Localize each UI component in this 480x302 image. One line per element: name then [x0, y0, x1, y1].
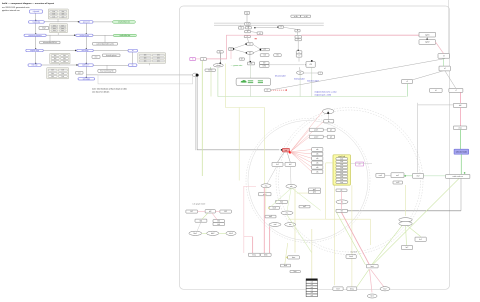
red junction dot — [289, 151, 292, 154]
box above bus 2 — [301, 15, 311, 18]
wire B3-C1 — [93, 50, 128, 52]
arrow T18 top — [250, 61, 251, 62]
wire yellow to pink gray — [351, 162, 373, 164]
node flat 1 — [336, 189, 347, 192]
svg-text:r3: r3 — [443, 56, 445, 58]
hub junction dot — [196, 74, 199, 77]
node under cloud — [205, 69, 215, 72]
svg-text:right1: right1 — [425, 33, 430, 36]
wire green r3-r4 — [443, 58, 445, 66]
node bl r2b2 — [213, 223, 224, 226]
svg-text:t15: t15 — [276, 54, 278, 57]
wire green diag 6 — [271, 188, 291, 206]
node bm b — [260, 253, 271, 256]
node right r7 — [449, 88, 463, 92]
svg-text:stk: stk — [316, 157, 318, 160]
wire group1 drop — [57, 19, 59, 22]
icon green bars 1 — [248, 80, 253, 83]
svg-text:tiny label: tiny label — [350, 251, 357, 254]
node C2 — [128, 64, 137, 67]
svg-text:cloud: cloud — [216, 65, 220, 67]
node br 1 — [415, 237, 426, 241]
ring inner dashed — [246, 119, 370, 243]
wire khaki horiz 2 — [288, 218, 326, 220]
svg-text:bl5: bl5 — [217, 221, 219, 223]
svg-text:stk: stk — [316, 148, 318, 151]
svg-text:pk: pk — [359, 164, 361, 166]
node bl e3 — [226, 231, 236, 235]
wire green r5 drop — [406, 84, 408, 97]
node pair mid a — [309, 188, 321, 191]
node mid box 3 — [269, 206, 280, 209]
arrow E1 left — [245, 43, 247, 45]
svg-text:ble3: ble3 — [229, 233, 232, 235]
red marker dash — [255, 37, 257, 40]
svg-text:mx2: mx2 — [280, 201, 283, 203]
svg-text:bma: bma — [252, 254, 256, 256]
node bl e2 — [207, 231, 219, 235]
node T19a — [259, 62, 269, 65]
wire L right horiz — [418, 104, 454, 106]
node yellow item 3 — [336, 166, 348, 169]
svg-text:svcbox: svcbox — [208, 70, 213, 72]
svg-text:rm0: rm0 — [379, 175, 382, 177]
svg-text:r5: r5 — [406, 81, 408, 83]
node A2 — [29, 20, 45, 23]
svg-text:e3: e3 — [299, 72, 301, 74]
junction arrow 11 — [76, 64, 77, 65]
wire T9 to E1 — [247, 38, 249, 43]
node on bus — [245, 22, 250, 25]
node right r2 — [419, 40, 436, 45]
svg-text:br1: br1 — [419, 239, 422, 241]
node bl r2a — [195, 219, 207, 222]
svg-text:bmg: bmg — [350, 288, 354, 290]
svg-text:stk: stk — [316, 166, 318, 169]
wire T8 drop — [297, 32, 299, 35]
wire group5 drop — [149, 62, 151, 65]
group G4 items — [47, 68, 69, 79]
wire green diag 9 — [287, 215, 312, 253]
node T17 — [239, 58, 244, 61]
wire group3 drop — [59, 64, 61, 65]
wire pink L1 to right box — [301, 34, 419, 36]
node yellow item 4 — [336, 169, 348, 172]
node fan box top — [324, 120, 334, 123]
wire red fan 6 — [290, 152, 311, 159]
node fan pair 1b — [327, 128, 335, 131]
wire W_a drop — [49, 35, 51, 41]
wire rm2 to wide — [424, 175, 446, 177]
node right m2 — [413, 173, 424, 178]
node stack box 5 — [312, 170, 323, 174]
group G2 items — [50, 24, 68, 33]
node right m3 — [393, 181, 403, 184]
node bm a — [248, 253, 260, 256]
wire cloud to svc green — [210, 67, 212, 69]
svg-text:L2: L2 — [297, 39, 299, 41]
wire pink elbow — [244, 236, 253, 238]
svg-text:rev 2024.01.01 generated auto: rev 2024.01.01 generated auto — [2, 6, 30, 9]
wire pink flat chain — [341, 192, 343, 210]
arrow r1-r2 — [426, 38, 428, 40]
node T3 — [238, 26, 244, 29]
svg-text:aa bb: aa bb — [294, 16, 298, 18]
svg-text:endpoint.host.name = value: endpoint.host.name = value — [315, 91, 337, 94]
junction arrow 10 — [75, 50, 76, 51]
node right r5 — [402, 80, 413, 84]
wire pink under T10 — [230, 50, 232, 59]
wire T19 to T20 — [269, 64, 304, 66]
node right m1 — [391, 173, 404, 178]
box W_b note — [93, 43, 118, 46]
green dot rm1 — [404, 175, 406, 177]
node L2 — [295, 38, 301, 41]
node right r1 — [419, 32, 436, 37]
node bm ellipse 1 — [367, 294, 377, 298]
wire T4 drop — [247, 25, 249, 31]
svg-text:stk: stk — [316, 153, 318, 156]
node highlight target — [454, 149, 469, 154]
node below red 1 — [272, 162, 283, 166]
svg-text:cfgnode: cfgnode — [33, 11, 39, 13]
junction arrow 7 — [86, 77, 87, 78]
node stack box 2 — [312, 157, 323, 161]
node red hot box — [282, 148, 289, 152]
node T11 ellipse — [246, 51, 254, 54]
container green zone edge — [218, 68, 407, 97]
wire khaki path 7 — [311, 229, 313, 279]
node T19b — [259, 65, 269, 68]
wire bl drop — [197, 222, 201, 231]
group G3 items — [50, 53, 70, 64]
wire khaki horiz — [297, 192, 321, 194]
node A1 start — [30, 10, 43, 13]
wire khaki path 6 — [351, 185, 353, 287]
wire T3 drop — [240, 25, 242, 26]
node E1 top — [246, 43, 253, 46]
arrow into red box — [281, 149, 283, 151]
svg-text:pair1: pair1 — [314, 129, 318, 131]
svg-text:t14: t14 — [263, 54, 265, 57]
node bm d — [280, 264, 290, 267]
svg-text:p2: p2 — [330, 136, 332, 138]
svg-text:bl1: bl1 — [190, 211, 192, 213]
node flat 2 — [336, 209, 348, 212]
node bl e1 — [189, 231, 202, 235]
node mid ellipse D — [269, 223, 281, 227]
wire pink diff down — [459, 108, 461, 127]
wire green diag 4 — [337, 212, 366, 265]
junction arrow 5 — [86, 48, 87, 49]
node T16b — [296, 54, 302, 57]
node T6 — [257, 32, 263, 35]
svg-text:v: v — [299, 55, 300, 57]
svg-text:mb: mb — [290, 186, 293, 188]
node mid ellipse C — [281, 211, 293, 215]
box above bus 1 — [291, 15, 301, 18]
svg-text:pipeline internal use: pipeline internal use — [2, 9, 21, 12]
wire green diag 1 — [406, 224, 421, 236]
box W_d — [92, 56, 100, 59]
wire T18 down — [250, 65, 252, 97]
node B5 — [78, 77, 95, 80]
node T8 — [295, 29, 300, 32]
node pair mid b — [309, 191, 321, 194]
db cylinder — [399, 218, 412, 226]
svg-text:tmpf: tmpf — [42, 27, 46, 30]
svg-text:bl6: bl6 — [217, 224, 219, 226]
svg-text:r4: r4 — [444, 68, 446, 70]
wire bl diag green — [202, 213, 208, 219]
box W_h — [98, 70, 116, 73]
node gray entry — [200, 58, 206, 61]
arrow T7 left — [277, 27, 278, 28]
wire diag B — [445, 71, 456, 89]
wire A4-B3 — [43, 50, 76, 52]
node right r6 — [430, 88, 443, 92]
svg-text:build — component diagram — ov: build — component diagram — overview of … — [2, 2, 54, 5]
wire pink main path — [206, 35, 295, 59]
node right wide — [446, 174, 470, 178]
wire T13 to cloud — [219, 53, 221, 63]
icon green cloud — [241, 80, 247, 83]
svg-text:md: md — [274, 224, 277, 226]
bus upper rail — [214, 22, 324, 24]
svg-text:mx4: mx4 — [269, 216, 272, 218]
svg-text:link.three.label: link.three.label — [307, 79, 319, 82]
wire E3 to T21 — [304, 72, 318, 74]
wire group2 drop — [57, 33, 59, 36]
wire r1-r2 — [426, 37, 428, 40]
junction arrow 0 — [35, 20, 36, 21]
svg-text:mx5: mx5 — [303, 206, 306, 208]
junction arrow 4 — [86, 33, 87, 34]
node right r3 — [438, 54, 450, 59]
node yellow item 2 — [336, 163, 348, 166]
svg-text:analyze passes: analyze passes — [80, 35, 90, 37]
wire green target down — [460, 154, 462, 174]
node mid box 2 — [276, 200, 288, 203]
wire green diag 2 — [406, 224, 407, 245]
svg-text:me: me — [289, 224, 292, 226]
wire right vertical top — [448, 0, 450, 54]
wire diag A — [271, 59, 445, 90]
svg-text:cc dd: cc dd — [304, 16, 308, 18]
box W_e — [103, 54, 121, 57]
wire khaki path 4 — [326, 163, 371, 245]
wire green diag 7 — [287, 188, 291, 211]
wire column A spine — [35, 14, 37, 64]
svg-text:right2: right2 — [425, 41, 430, 44]
wire T7 fan left — [255, 26, 278, 29]
svg-text:final summary file: final summary file — [100, 70, 113, 73]
wire bl diag pink — [212, 213, 217, 220]
svg-text:p1: p1 — [330, 129, 332, 131]
node T9 — [244, 35, 250, 38]
svg-text:t19: t19 — [263, 62, 265, 65]
svg-text:bl3: bl3 — [224, 211, 226, 213]
node bl r1c — [220, 210, 231, 213]
wire T16 drop — [298, 57, 300, 62]
wire E1 left fan — [233, 44, 246, 48]
node A3 — [24, 34, 46, 37]
svg-text:bmh: bmh — [349, 256, 353, 258]
svg-text:sub graph label: sub graph label — [192, 203, 206, 206]
node mid box 1 — [259, 193, 272, 196]
node green result 1 — [113, 20, 136, 23]
svg-text:— green note: — green note — [231, 64, 242, 67]
node T13 — [217, 50, 223, 53]
node bm g — [347, 287, 357, 291]
wire T11 to T12 — [254, 50, 261, 53]
wire long right — [348, 210, 462, 212]
wire diag D — [413, 71, 444, 80]
icon green bars 2 — [258, 80, 263, 83]
wire hub down-right — [197, 77, 279, 150]
svg-text:fl1: fl1 — [341, 190, 343, 192]
wire right container drop — [460, 179, 462, 211]
node mid ellipse B — [286, 184, 297, 188]
node T5 — [245, 30, 251, 33]
wire left-chart to hub — [86, 74, 193, 76]
fan ellipse dot — [327, 112, 329, 114]
svg-text:br1: br1 — [276, 164, 279, 166]
svg-text:r7: r7 — [455, 90, 457, 92]
junction arrow 9 — [74, 35, 75, 36]
hub ellipse — [193, 73, 198, 77]
wire pair1 link — [323, 129, 327, 131]
junction arrow 2 — [35, 48, 36, 49]
bus lower rail — [214, 24, 324, 26]
wire B1-green1 — [93, 21, 113, 23]
wire bl green 1 — [202, 232, 207, 234]
svg-text:link.one.label: link.one.label — [275, 76, 286, 78]
wire red fan 4 — [290, 150, 311, 152]
svg-text:xn: xn — [132, 50, 134, 52]
svg-text:g: g — [203, 59, 204, 61]
box W_a note — [40, 41, 60, 44]
wire khaki path 1 — [226, 64, 265, 184]
node mid ellipse A — [261, 184, 271, 188]
svg-text:rm2: rm2 — [416, 175, 419, 177]
hub outline rect — [98, 75, 193, 84]
wire red fan 8 — [290, 152, 311, 167]
svg-text:ble1: ble1 — [194, 233, 197, 235]
node right r4 — [439, 66, 450, 71]
svg-text:t10: t10 — [230, 48, 232, 51]
arrow T16 top — [298, 50, 299, 51]
node B4 — [78, 64, 93, 67]
svg-text:endpoint.port = 1234: endpoint.port = 1234 — [315, 93, 332, 96]
svg-text:u: u — [299, 52, 300, 54]
wire pink r7 down — [459, 92, 461, 103]
wire T20 down — [311, 67, 313, 96]
node B3 — [77, 49, 94, 52]
node B1 — [80, 20, 94, 23]
wire pink m1 to gray — [196, 58, 201, 60]
node C1 — [128, 49, 138, 52]
wire red fan 2 — [290, 130, 309, 152]
wire A5-B4 — [41, 64, 78, 66]
node T15 — [274, 54, 281, 57]
node magenta entry — [190, 58, 196, 61]
svg-text:selected node: selected node — [456, 151, 467, 154]
node bm e — [290, 270, 300, 273]
wire khaki path 3 — [294, 189, 296, 253]
node T14 — [260, 54, 269, 57]
wire fan ellipse drop — [328, 114, 330, 120]
svg-text:pm2: pm2 — [313, 192, 316, 194]
arrow T11 left — [246, 52, 247, 53]
svg-text:stk: stk — [316, 161, 318, 164]
node mid ellipse E — [285, 223, 296, 227]
wire green cmp down — [459, 130, 461, 150]
node pink peer — [356, 162, 364, 166]
box services panel — [236, 78, 271, 85]
box W_g — [76, 71, 84, 74]
wire khaki path 5 — [334, 186, 336, 286]
junction above T20 — [311, 60, 313, 62]
node cloud ellipse — [213, 64, 223, 67]
db table row 2 — [306, 286, 317, 289]
node T18 — [247, 62, 254, 65]
node yellow item 0 — [336, 157, 348, 160]
node bl r1a — [186, 210, 198, 213]
svg-text:see docs for details: see docs for details — [92, 91, 109, 94]
node right m0 — [376, 173, 385, 177]
wire pink diag 2 — [371, 269, 385, 287]
node stack box 3 — [312, 161, 323, 165]
node fan pair 1a — [309, 128, 323, 131]
red dashed arrow — [271, 89, 286, 91]
svg-text:be2: be2 — [384, 288, 387, 290]
node mid box 5 — [299, 205, 310, 208]
wire diamond left-bottom — [233, 49, 246, 53]
wire W_b drop — [104, 35, 106, 42]
node T4 — [245, 26, 251, 29]
khaki dot mx3 — [268, 207, 270, 208]
wire br2 to mb — [289, 166, 292, 184]
node right cmp — [453, 126, 466, 130]
svg-text:br2: br2 — [406, 247, 409, 249]
svg-text:rm3: rm3 — [396, 182, 399, 184]
wire L right mid — [417, 103, 419, 173]
wire T5 to T6 — [251, 31, 258, 34]
wire green long diag — [373, 179, 460, 265]
svg-text:ma: ma — [265, 185, 268, 187]
node top root — [245, 11, 250, 14]
svg-text:t18: t18 — [250, 62, 252, 65]
node bm i — [366, 264, 378, 268]
red arrow head — [286, 89, 287, 90]
svg-text:bmd: bmd — [284, 265, 287, 267]
svg-text:t20: t20 — [309, 63, 312, 66]
wire W_h drop — [106, 65, 108, 69]
node fan ellipse top — [323, 109, 334, 114]
wire green diag 3 — [372, 224, 404, 265]
wire red to below right — [287, 152, 290, 162]
wire B4-C2 — [93, 64, 129, 66]
svg-text:bmc: bmc — [292, 257, 295, 259]
wire pink drop 1 — [252, 237, 254, 253]
node T10 — [229, 48, 234, 51]
node yellow item 5 — [336, 172, 348, 175]
wire T11 drop — [249, 54, 251, 62]
svg-text:fb: fb — [328, 121, 330, 123]
wire bl pink 2 — [215, 211, 220, 213]
wire pink drop 2 — [263, 188, 265, 253]
